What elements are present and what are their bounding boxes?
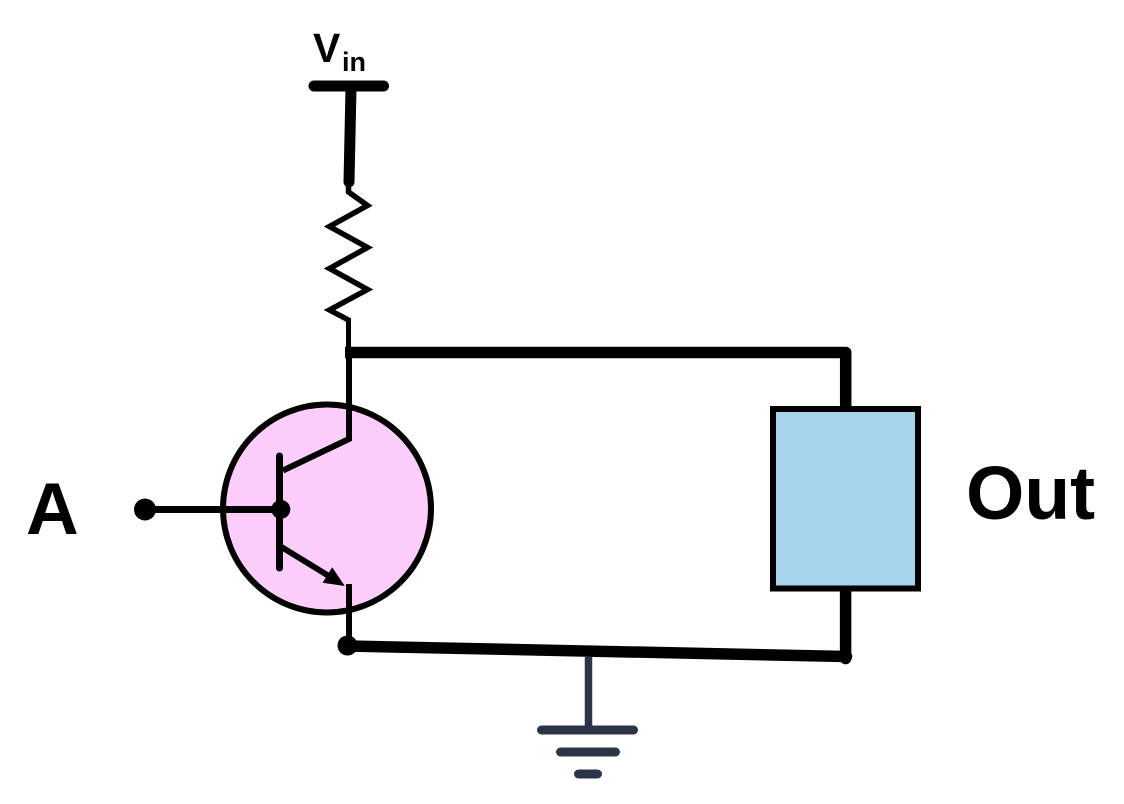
wire resistor R1 to collector node (346, 318, 351, 354)
wire ground node to output return (bottom horizontal) (348, 646, 847, 657)
node A input terminal dot (134, 499, 156, 521)
wire emitter to ground node (346, 584, 352, 645)
transistor Q1 emitter lead (282, 547, 338, 581)
svg-text:A: A (26, 469, 79, 550)
ground bar 2 (561, 748, 616, 757)
transistor Q1 emitter arrowhead (323, 567, 345, 586)
ground bar 3 (579, 770, 598, 779)
svg-text:Out: Out (966, 451, 1095, 535)
wire Vin rail to resistor R1 (349, 88, 351, 182)
wire input A to base (145, 506, 281, 513)
svg-text:in: in (342, 47, 366, 77)
resistor R1 (330, 184, 368, 320)
wire collector node to output (top horizontal) (345, 353, 846, 412)
wire output load bottom to return wire (840, 586, 852, 659)
ground bar 1 (542, 726, 634, 735)
transistor Q1 collector lead (283, 352, 349, 471)
junction base node dot (271, 500, 290, 519)
power supply rail bar Vin (314, 81, 384, 92)
junction emitter/ground node dot (338, 636, 358, 656)
ground stem wire (585, 657, 593, 729)
transistor Q1 body (223, 405, 431, 613)
svg-text:V: V (313, 25, 341, 71)
load / output block (773, 409, 918, 589)
transistor Q1 base bar (276, 456, 283, 568)
